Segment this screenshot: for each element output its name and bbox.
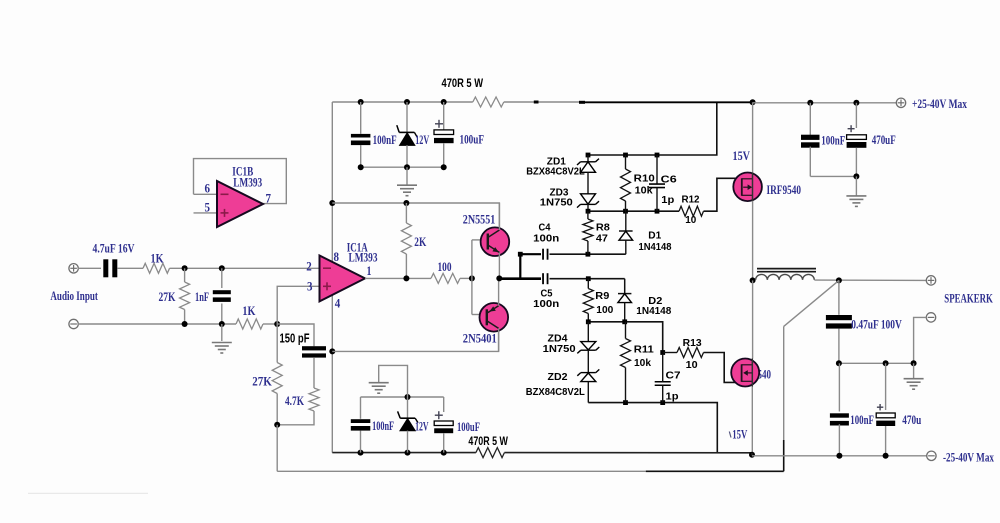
resistor R8 47 [587,211,589,219]
svg-text:IRF9540: IRF9540 [767,183,802,197]
svg-text:1N750: 1N750 [543,343,576,355]
svg-text:Audio Input: Audio Input [50,289,98,303]
svg-text:R13: R13 [683,337,702,349]
wire output feedback drop black [783,440,785,471]
scan artifact line [28,492,148,494]
resistor R12 10 [679,206,703,216]
junction C6 top [655,153,660,158]
svg-text:D1: D1 [648,230,661,242]
ground (bottom supply) [379,365,408,397]
junction supply gnd 1 [358,164,364,170]
svg-text:1K: 1K [151,252,164,266]
svg-text:LM393: LM393 [349,250,378,264]
svg-text:0.47uF 100V: 0.47uF 100V [851,318,902,332]
junction R11 bottom [623,400,628,405]
wire C4 to R8/D1 [550,253,626,255]
resistor 1K (to pin 3) [236,319,263,329]
wire Q2 collector [498,328,500,351]
wire output diagonal [784,280,839,326]
svg-text:2N5401: 2N5401 [463,332,497,346]
junction rail 100uF [441,450,447,456]
junction bottom rail MOSFET [749,452,755,458]
svg-text:470R 5 W: 470R 5 W [468,434,508,448]
wire IRF540 source lead [751,387,753,455]
wire emitter node thick [499,277,541,280]
diode D2 1N4148 [624,279,626,294]
svg-text:R9: R9 [595,290,609,302]
junction output node [836,277,842,283]
wire Q1 emitter [498,253,500,279]
svg-text:100uF: 100uF [460,133,485,147]
svg-text:100nF: 100nF [850,413,874,427]
wire C-in to 1K [117,267,143,269]
wire lower mid rail [588,322,662,353]
junction 1nF top [219,265,225,271]
wire 27K to junction [276,394,278,425]
junction ZD1 top [586,153,591,158]
wire inductor to output node [814,279,926,281]
wire 150pF to 4.7K [313,358,315,388]
svg-text:47: 47 [596,233,608,245]
capacitor 100nF (V+ filter) [809,103,811,135]
svg-text:27K: 27K [159,290,176,304]
wire top rail mid [504,101,585,103]
svg-text:2K: 2K [414,235,426,249]
resistor R13 10 [663,352,677,354]
wire pin 5 stub [194,212,218,214]
junction output/2K [403,275,409,281]
svg-text:15V: 15V [732,428,747,442]
junction bus / lower driver wire [329,348,335,354]
svg-text:1p: 1p [661,194,674,206]
junction 1nF bottom / ground tap [219,321,225,327]
wire speaker- to gnd [914,317,927,363]
resistor 2K [405,203,407,223]
svg-text:R11: R11 [634,344,654,356]
wire C5 to R9/D2 [550,278,625,280]
junction zobel C bottom [836,453,842,459]
svg-text:C7: C7 [666,369,681,381]
junction 12V zener top [404,99,410,105]
svg-text:SPEAKERK: SPEAKERK [944,292,993,306]
junction MOSFET source [750,99,756,105]
junction pin3 node [274,321,280,327]
junction rail 12V zener [405,450,411,456]
capacitor 470u (V- filter) [885,363,887,410]
svg-text:BZX84C8V2L: BZX84C8V2L [526,166,585,178]
svg-text:470R 5 W: 470R 5 W [442,76,484,90]
inductor core lines [757,268,816,270]
inductor L1 coil [756,274,815,279]
resistor 470R 5W (bottom) [476,448,505,458]
wire input+ to C-in [78,267,101,269]
wire riser to C4 (thick) [520,254,541,279]
resistor 100 [431,273,460,283]
resistor R9 100 [587,279,589,289]
junction supply gnd 3 [441,164,447,170]
input terminal + (Audio Input) [69,264,78,273]
wire feedback run (gray) [277,470,646,472]
svg-text:100n: 100n [533,298,559,310]
capacitor 150 pF [302,346,326,350]
svg-text:-25-40V Max: -25-40V Max [943,451,995,465]
wire bottom rail right [751,453,753,456]
svg-text:R8: R8 [596,221,610,233]
junction R8 bottom [586,252,591,257]
wire zobel top rail [839,362,914,364]
junction bus / driver rail [329,200,335,206]
wire IC1A output [365,277,431,279]
op-amp IC1A [320,256,366,302]
svg-text:10k: 10k [635,185,653,197]
tick mark rail 1 [534,101,539,104]
resistor 27K (feedback) [276,324,278,363]
svg-text:4.7K: 4.7K [285,394,304,408]
wire bottom rail mid [504,452,752,454]
svg-text:100: 100 [596,304,613,316]
capacitor 1nF [221,268,223,288]
zener ZD1 BZX84C8V2L [587,155,589,162]
svg-text:4: 4 [335,297,341,311]
junction zobel 1 [836,360,842,366]
svg-text:12V: 12V [415,420,429,434]
ground (top supply) [406,167,408,184]
junction ZD3 bottom [586,209,591,214]
capacitor 100nF (top supply) [360,102,362,134]
wire riser to pin 3 [277,286,319,324]
junction C7 bottom [660,400,665,405]
svg-text:27K: 27K [252,375,272,389]
svg-text:8: 8 [334,250,340,264]
resistor 470R 5W (top) [473,97,504,107]
svg-text:ZD2: ZD2 [548,371,568,383]
junction 27K bottom [182,321,188,327]
capacitor 100uF (bottom supply) [443,397,445,412]
transistor Q2 2N5401 [480,303,509,332]
svg-text:12V: 12V [415,133,429,147]
junction 2K top [403,200,409,206]
junction feedback node [274,422,280,428]
wire pin 6 [194,193,218,195]
svg-text:LM393: LM393 [233,176,262,190]
svg-text:7: 7 [266,192,272,206]
capacitor 4.7uF 16V [103,259,108,277]
junction supply gnd 2 [404,164,410,170]
svg-text:R12: R12 [682,194,700,206]
svg-text:470uF: 470uF [872,133,896,147]
terminal +25-40V [896,98,905,107]
svg-text:150 pF: 150 pF [280,331,310,345]
zener ZD3 1N750 [581,194,596,204]
wire 1K to junction [263,323,277,325]
svg-text:2: 2 [306,259,312,273]
wire R12 to gate [704,178,742,211]
wire 1K to pin2 node [170,267,320,269]
wire mid bias rail [588,210,679,212]
capacitor 470uF (V+ filter) [855,103,857,128]
svg-text:2N5551: 2N5551 [463,212,496,226]
junction 470uF top [853,100,859,106]
resistor R11 10k [625,322,627,339]
wire top rail black [585,101,753,103]
svg-text:6: 6 [205,182,211,196]
junction inductor tap [750,277,756,283]
ground (speaker) [913,363,915,378]
capacitor C7 1p [655,381,671,383]
wire IRF9540 drain lead [752,201,754,280]
junction R9 bottom [586,319,591,324]
junction 470u bottom [883,453,889,459]
wire output feedback drop gray [783,326,785,440]
svg-text:100: 100 [438,260,452,274]
mosfet U2 IRF9540 [733,173,762,202]
svg-text:4.7uF 16V: 4.7uF 16V [93,242,135,256]
resistor 4.7K [309,388,319,411]
svg-text:100nF: 100nF [372,419,394,433]
ground (V+ filter) [855,176,857,195]
junction R13 left [660,350,665,355]
svg-text:1K: 1K [242,304,255,318]
capacitor C4 100n [542,249,544,260]
wire feedback drop [276,425,278,472]
wire Q1 collector [498,203,500,230]
junction zobel gnd [911,360,917,366]
junction bottom supply mid [405,394,411,400]
wire junction to 150pF [277,324,314,346]
diode D1 1N4148 [625,211,627,231]
junction C6 bottom [655,209,660,214]
junction zobel 2 [883,360,889,366]
wire base bus [471,240,473,315]
junction D2 bottom [622,319,627,324]
wire R13 to gate [704,353,742,383]
op-amp IC1B feedback box [194,159,287,204]
svg-text:C6: C6 [661,173,677,185]
wire 4.7K to junction [277,411,314,425]
svg-text:10: 10 [685,214,696,226]
capacitor C5 100n [542,273,544,284]
junction C4 riser [518,252,523,257]
wire bottom rail left [332,452,476,454]
junction R10 bottom [623,209,628,214]
wire upper bias rail [588,102,717,155]
svg-text:1N4148: 1N4148 [639,241,672,253]
junction 27K top [182,265,188,271]
svg-text:100uF: 100uF [457,420,480,434]
junction 100nF bottom-supply top... rail1 [358,450,364,456]
mosfet U3 IRF540 [731,359,759,387]
junction V+ filter gnd [853,173,859,179]
terminal speaker - [926,313,935,322]
capacitor 100uF (top supply) [443,102,445,130]
zener ZD2 BZX84C8V2L [581,372,596,374]
svg-text:1N750: 1N750 [540,196,573,208]
tick mark rail 2 [579,101,585,104]
resistor 1K (input) [143,263,170,273]
wire IRF540 drain lead [752,280,754,358]
terminal -25-40V [927,451,936,460]
svg-text:+25-40V Max: +25-40V Max [912,97,968,111]
svg-text:1nF: 1nF [195,290,209,304]
junction base node [469,275,475,281]
svg-text:1: 1 [367,264,372,278]
ground (input) [221,324,223,341]
svg-text:470u: 470u [902,413,921,427]
wire driver -rail [332,332,498,352]
svg-text:10k: 10k [634,357,651,369]
wire IRF9540 source lead [752,102,754,172]
svg-text:100n: 100n [533,233,559,245]
junction R10 top [623,153,628,158]
wire lower bias bottom rail [588,403,717,453]
wire top supply bottom [361,166,444,168]
capacitor 0.47uF 100V [838,280,840,314]
junction 100nF right top [807,100,813,106]
wire driver +rail [332,203,499,228]
wire base stub Q2 [472,314,483,316]
wire bottom supply top [361,396,444,398]
resistor 27K (input shunt) [184,268,186,282]
transistor Q1 2N5551 [481,227,510,256]
capacitor C6 1p [656,155,658,184]
svg-text:3: 3 [307,280,313,294]
svg-text:100nF: 100nF [821,134,845,148]
junction R9 top [586,276,591,281]
wire Q2 emitter [498,278,500,305]
wire base stub Q1 [472,239,483,241]
terminal speaker + [926,276,935,285]
resistor R10 10k [625,155,627,169]
junction 100nF top [358,99,364,105]
svg-text:5: 5 [205,201,211,215]
wire top rail left [332,101,473,103]
zener 12V (top supply) [406,102,408,134]
wire left vertical bus [331,102,333,453]
svg-text:100nF: 100nF [373,133,397,147]
svg-text:15V: 15V [733,149,751,163]
zener 12V (bottom supply) [407,397,409,418]
zener ZD4 1N750 [587,322,589,342]
label 15V (bottom) [729,432,731,438]
svg-text:10: 10 [686,359,698,371]
wire input- rail [78,323,236,325]
op-amp IC1B [217,181,263,227]
svg-text:R10: R10 [634,173,655,185]
wire 100 to bases [460,277,472,279]
wire V+ filter bottom [809,147,811,177]
capacitor 100nF (zobel) [838,363,840,411]
svg-text:1N4148: 1N4148 [636,305,671,317]
wire top rail right [753,102,897,104]
capacitor 100nF (bottom supply) [360,397,362,419]
wire feedback run (black) [646,470,784,472]
junction emitter node [496,275,502,281]
junction 100uF top [441,99,447,105]
input terminal - (Audio Input) [69,319,78,328]
svg-text:BZX84C8V2L: BZX84C8V2L [526,386,586,398]
svg-text:1p: 1p [666,390,679,402]
